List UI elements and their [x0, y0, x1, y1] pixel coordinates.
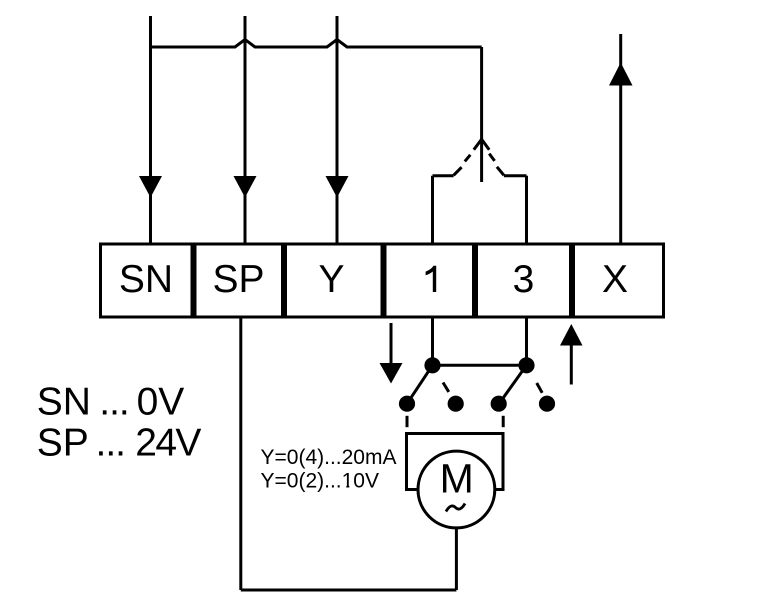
- dashed link contact 3 to motor frame: [502, 416, 505, 427]
- direction arrow up head: [560, 324, 583, 346]
- switch blade right alternate (dash segment): [537, 383, 543, 393]
- terminal divider SN/SP: [191, 243, 197, 319]
- junction node right (terminal 3): [518, 357, 534, 373]
- svg-text:SP: SP: [212, 258, 264, 301]
- arrowhead out of terminal X (up): [609, 63, 633, 86]
- wire right throw horizontal: [504, 174, 527, 177]
- direction arrow up (feedback) shaft: [570, 345, 573, 385]
- contact node 1: [399, 396, 415, 412]
- svg-text:24V: 24V: [135, 421, 201, 464]
- wire motor to bottom rail: [455, 528, 458, 591]
- wire left throw horizontal: [433, 174, 454, 177]
- svg-text:...: ...: [96, 421, 126, 464]
- svg-text:X: X: [602, 258, 628, 301]
- wire left throw drop to terminal 1: [431, 176, 434, 244]
- wire rail corner drop to switch arrow: [480, 47, 483, 182]
- svg-text:Y: Y: [318, 258, 344, 301]
- wire SP drop to bottom rail: [239, 317, 242, 590]
- wire top horizontal rail with hops over SP and Y: [151, 40, 482, 48]
- switch blade left alternate (dash segment): [443, 383, 449, 392]
- motor AC tilde symbol: [446, 504, 465, 512]
- motor frame bracket: [407, 434, 504, 490]
- glyph tweak: remove foot serif of small 1: [343, 484, 347, 487]
- switch blade right solid: [499, 365, 527, 403]
- motor M1 body: [418, 451, 495, 528]
- svg-text:Y=0(2)...10V: Y=0(2)...10V: [261, 469, 379, 492]
- switch blade left solid: [407, 365, 433, 403]
- wire SP supply vertical: [244, 16, 247, 244]
- junction node left (terminal 1): [424, 357, 440, 373]
- terminal 1 label: [426, 266, 437, 292]
- terminal divider 3/X: [569, 243, 575, 319]
- contact node 4: [539, 396, 555, 412]
- wire bottom rail: [241, 589, 457, 592]
- wire linking switch nodes: [433, 364, 527, 367]
- svg-text:SN: SN: [37, 381, 91, 424]
- terminal divider 1/3: [472, 243, 478, 319]
- wire terminal 1 drop to switch node: [431, 317, 434, 365]
- solid tick left throw: [454, 167, 462, 175]
- wire X output vertical: [619, 34, 622, 244]
- svg-text:M: M: [440, 456, 474, 502]
- contact node 2: [448, 396, 464, 412]
- switch position arrowhead (up chevron): [474, 139, 489, 149]
- arrowhead into terminal SN: [139, 176, 162, 198]
- svg-text:3: 3: [513, 258, 535, 301]
- dashed switch throw left (dash segment): [465, 155, 471, 162]
- wire right throw drop to terminal 3: [525, 176, 528, 244]
- svg-text:SN: SN: [119, 258, 173, 301]
- terminal strip outer box: [101, 244, 664, 317]
- wire Y supply vertical: [336, 16, 339, 244]
- arrowhead into terminal Y: [326, 176, 349, 198]
- contact node 3: [491, 396, 507, 412]
- direction arrow down (signal into actuator) shaft: [390, 323, 393, 366]
- terminal divider Y/1: [381, 243, 387, 319]
- svg-text:...: ...: [99, 381, 128, 424]
- wire terminal 3 drop to switch node: [525, 317, 528, 365]
- solid tick right throw: [497, 167, 504, 176]
- svg-text:0V: 0V: [137, 381, 185, 424]
- svg-text:Y=0(4)...20mA: Y=0(4)...20mA: [261, 446, 397, 469]
- svg-text:SP: SP: [37, 421, 89, 464]
- terminal divider SP/Y: [281, 243, 287, 319]
- wire SN supply vertical: [149, 16, 152, 244]
- dashed link contact 1 to motor frame: [406, 416, 409, 427]
- direction arrow down head: [380, 363, 403, 384]
- dashed switch throw right (dash segment): [489, 154, 494, 161]
- arrowhead into terminal SP: [234, 176, 257, 198]
